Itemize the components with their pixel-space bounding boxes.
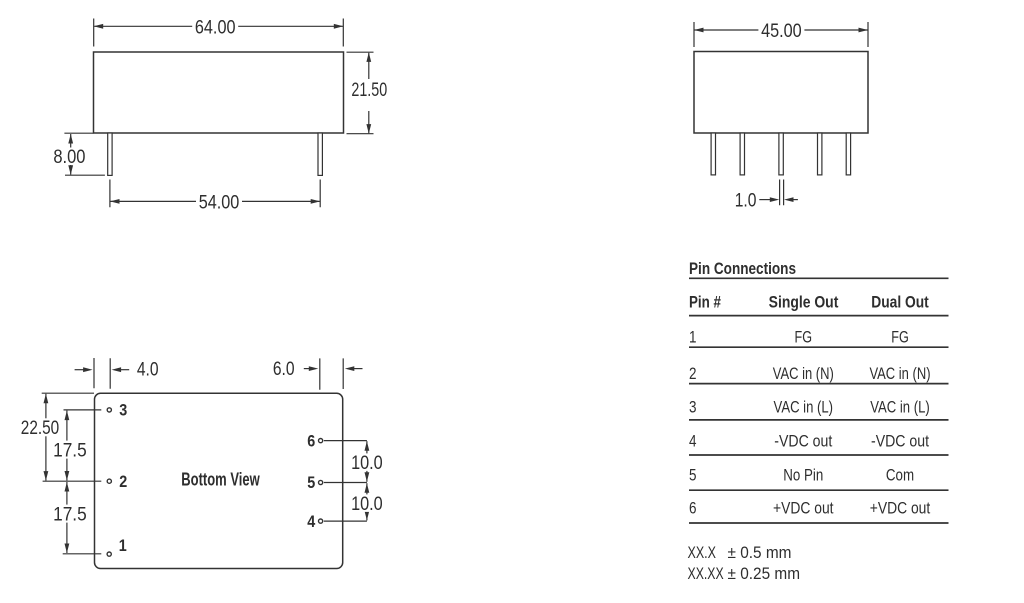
pin 3 hole	[107, 408, 111, 412]
dimension 17.5 upper arrow up	[65, 411, 70, 421]
svg-text:8.00: 8.00	[53, 146, 85, 168]
svg-text:45.00: 45.00	[761, 20, 802, 42]
dimension 54.00 extension lines	[110, 180, 320, 208]
pin 1 of 5 (side view)	[711, 133, 715, 175]
dimension 10.0 lower label	[350, 494, 385, 512]
module body side view 45 wide	[694, 52, 868, 134]
pin left (side view)	[108, 133, 112, 175]
svg-text:1: 1	[119, 537, 127, 555]
table rule under title	[689, 277, 949, 279]
table rule under row 3	[689, 419, 949, 421]
dimension 4.0 arrow left-pointing	[112, 367, 122, 372]
svg-text:Dual Out: Dual Out	[871, 293, 929, 312]
table rule under row 2	[689, 383, 949, 385]
svg-text:17.5: 17.5	[53, 503, 87, 525]
dimension 22.50 line	[45, 394, 47, 481]
svg-text:17.5: 17.5	[53, 439, 87, 461]
dimension 1.0 arrow left-pointing	[784, 197, 794, 202]
svg-text:2: 2	[119, 473, 127, 491]
svg-text:Pin #: Pin #	[689, 293, 721, 312]
svg-text:5: 5	[307, 474, 315, 492]
svg-text:54.00: 54.00	[199, 192, 240, 214]
svg-text:1: 1	[689, 328, 697, 347]
table rule under row 1	[689, 346, 949, 348]
svg-text:22.50: 22.50	[21, 417, 60, 439]
svg-text:6: 6	[689, 499, 697, 518]
dimension 17.5 lower arrow down	[65, 544, 70, 554]
svg-text:3: 3	[689, 397, 697, 416]
svg-text:Pin Connections: Pin Connections	[689, 259, 796, 278]
svg-text:± 0.25 mm: ± 0.25 mm	[728, 564, 801, 583]
dimension 45.00 label	[758, 20, 804, 40]
dimension 64.00 extension lines	[94, 19, 344, 47]
dimension 6.0 right leader	[354, 368, 363, 370]
svg-text:21.50: 21.50	[351, 79, 387, 101]
dimension 4.0 right leader	[121, 369, 130, 371]
table rule under row 5	[689, 489, 949, 491]
dimension 17.5 upper arrow down	[65, 471, 70, 481]
dimension 45.00 line	[695, 29, 868, 31]
dimension 1.0 extension lines	[780, 180, 784, 206]
svg-text:3: 3	[119, 402, 127, 420]
pin 4 leader line	[324, 520, 367, 522]
svg-text:FG: FG	[891, 328, 909, 347]
dimension 6.0 extension ticks	[320, 358, 343, 389]
dimension 6.0 left leader	[304, 368, 310, 370]
table rule under row 6	[689, 522, 949, 524]
dimension 17.5 lower line	[66, 482, 68, 553]
dimension 64.00 label	[192, 17, 238, 37]
pin 4 of 5 (side view)	[818, 133, 822, 175]
dimension 64.00 arrow left	[94, 24, 104, 29]
dimension 10.0 upper line	[366, 441, 368, 482]
svg-text:Single Out: Single Out	[769, 293, 839, 312]
dimension 10.0 lower line	[366, 483, 368, 520]
dimension 10.0 lower arrow down	[365, 511, 370, 521]
dimension 4.0 extension ticks	[94, 358, 110, 389]
pin 5 hole	[319, 480, 323, 484]
svg-text:-VDC out: -VDC out	[774, 431, 832, 450]
svg-text:XX.XX: XX.XX	[688, 564, 724, 583]
svg-text:+VDC out: +VDC out	[773, 499, 834, 518]
svg-text:1.0: 1.0	[735, 190, 757, 212]
dimension 6.0 arrow right-pointing	[309, 366, 319, 371]
dimension 1.0 left leader	[759, 199, 771, 201]
dimension 10.0 lower arrow up	[365, 483, 370, 493]
svg-text:5: 5	[689, 465, 697, 484]
dimension 54.00 label	[196, 192, 242, 212]
svg-text:Com: Com	[886, 465, 914, 484]
pin 3 of 5 (side view)	[779, 133, 783, 175]
dimension 45.00 extension lines	[694, 22, 868, 47]
svg-text:+VDC out: +VDC out	[870, 499, 931, 518]
pin 1 hole	[107, 552, 111, 556]
svg-text:± 0.5 mm: ± 0.5 mm	[728, 543, 792, 562]
table rule under row 4	[689, 454, 949, 456]
dimension 10.0 upper arrow up	[365, 441, 370, 451]
module body side view 64x21.5	[94, 52, 344, 133]
dimension 8.00 label	[52, 148, 87, 166]
dimension 17.5 upper line	[66, 411, 68, 481]
pin 2 hole	[107, 479, 111, 483]
svg-text:4: 4	[689, 431, 697, 450]
svg-text:64.00: 64.00	[195, 17, 236, 39]
dimension 54.00 arrow right	[311, 199, 321, 204]
svg-text:-VDC out: -VDC out	[871, 431, 929, 450]
dimension 17.5 upper extension tick	[64, 409, 102, 411]
dimension 22.50 arrow down	[44, 471, 49, 481]
dimension 17.5 lower extension tick at pin1	[63, 553, 102, 555]
dimension 45.00 arrow right	[859, 28, 869, 33]
svg-text:FG: FG	[795, 328, 813, 347]
dimension 21.50 arrow down	[366, 124, 371, 134]
dimension 22.50 arrow up	[44, 394, 49, 404]
dimension 54.00 arrow left	[110, 199, 120, 204]
dimension 1.0 right leader	[793, 199, 798, 201]
dimension 8.00 extension ticks	[64, 133, 105, 175]
dimension 64.00 line	[94, 25, 343, 27]
svg-text:10.0: 10.0	[351, 493, 383, 515]
dimension 6.0 arrow left-pointing	[345, 366, 355, 371]
svg-text:2: 2	[689, 364, 697, 383]
dimension 21.50 arrow up	[366, 52, 371, 62]
pin 5 leader line	[324, 482, 367, 484]
dimension 22.50 label	[19, 418, 61, 436]
dimension 17.5 lower arrow up	[65, 482, 70, 492]
dimension 10.0 upper arrow down	[365, 472, 370, 482]
pin 6 hole	[319, 439, 323, 443]
svg-text:4: 4	[307, 513, 316, 531]
dimension 22.50 extension ticks	[42, 393, 102, 481]
dimension 8.00 arrow down	[68, 165, 73, 175]
dimension 21.50 line	[368, 53, 370, 133]
svg-text:VAC in (N): VAC in (N)	[869, 364, 930, 383]
pin 6 leader line	[324, 440, 367, 442]
pin 5 of 5 (side view)	[846, 133, 850, 175]
dimension 54.00 line	[110, 200, 319, 202]
table rule under header	[689, 315, 949, 317]
dimension 1.0 arrow right-pointing	[770, 197, 780, 202]
svg-text:6: 6	[307, 432, 315, 450]
dimension 21.50 label	[350, 79, 390, 111]
pin right (side view)	[318, 133, 322, 175]
svg-text:VAC in (L): VAC in (L)	[774, 397, 834, 416]
dimension 21.50 extension lines	[347, 52, 374, 134]
svg-text:VAC in (L): VAC in (L)	[870, 397, 930, 416]
dimension 8.00 arrow up	[68, 134, 73, 144]
dimension 45.00 arrow left	[694, 28, 704, 33]
dimension 8.00 line	[70, 134, 72, 175]
svg-text:Bottom View: Bottom View	[181, 470, 260, 490]
dimension 10.0 upper label	[350, 453, 385, 471]
svg-text:No Pin: No Pin	[783, 465, 823, 484]
module body bottom view	[95, 393, 343, 568]
svg-text:4.0: 4.0	[137, 359, 159, 381]
dimension 4.0 left leader	[75, 369, 85, 371]
svg-text:10.0: 10.0	[351, 452, 383, 474]
dimension 64.00 arrow right	[334, 24, 344, 29]
svg-text:6.0: 6.0	[273, 358, 295, 380]
pin 2 of 5 (side view)	[740, 133, 744, 175]
svg-text:VAC in (N): VAC in (N)	[773, 364, 834, 383]
svg-text:XX.X: XX.X	[688, 543, 717, 562]
pin 4 hole	[319, 519, 323, 523]
dimension 17.5 upper label	[52, 441, 89, 459]
dimension 4.0 arrow right-pointing	[83, 367, 93, 372]
dimension 17.5 lower label	[52, 505, 89, 523]
